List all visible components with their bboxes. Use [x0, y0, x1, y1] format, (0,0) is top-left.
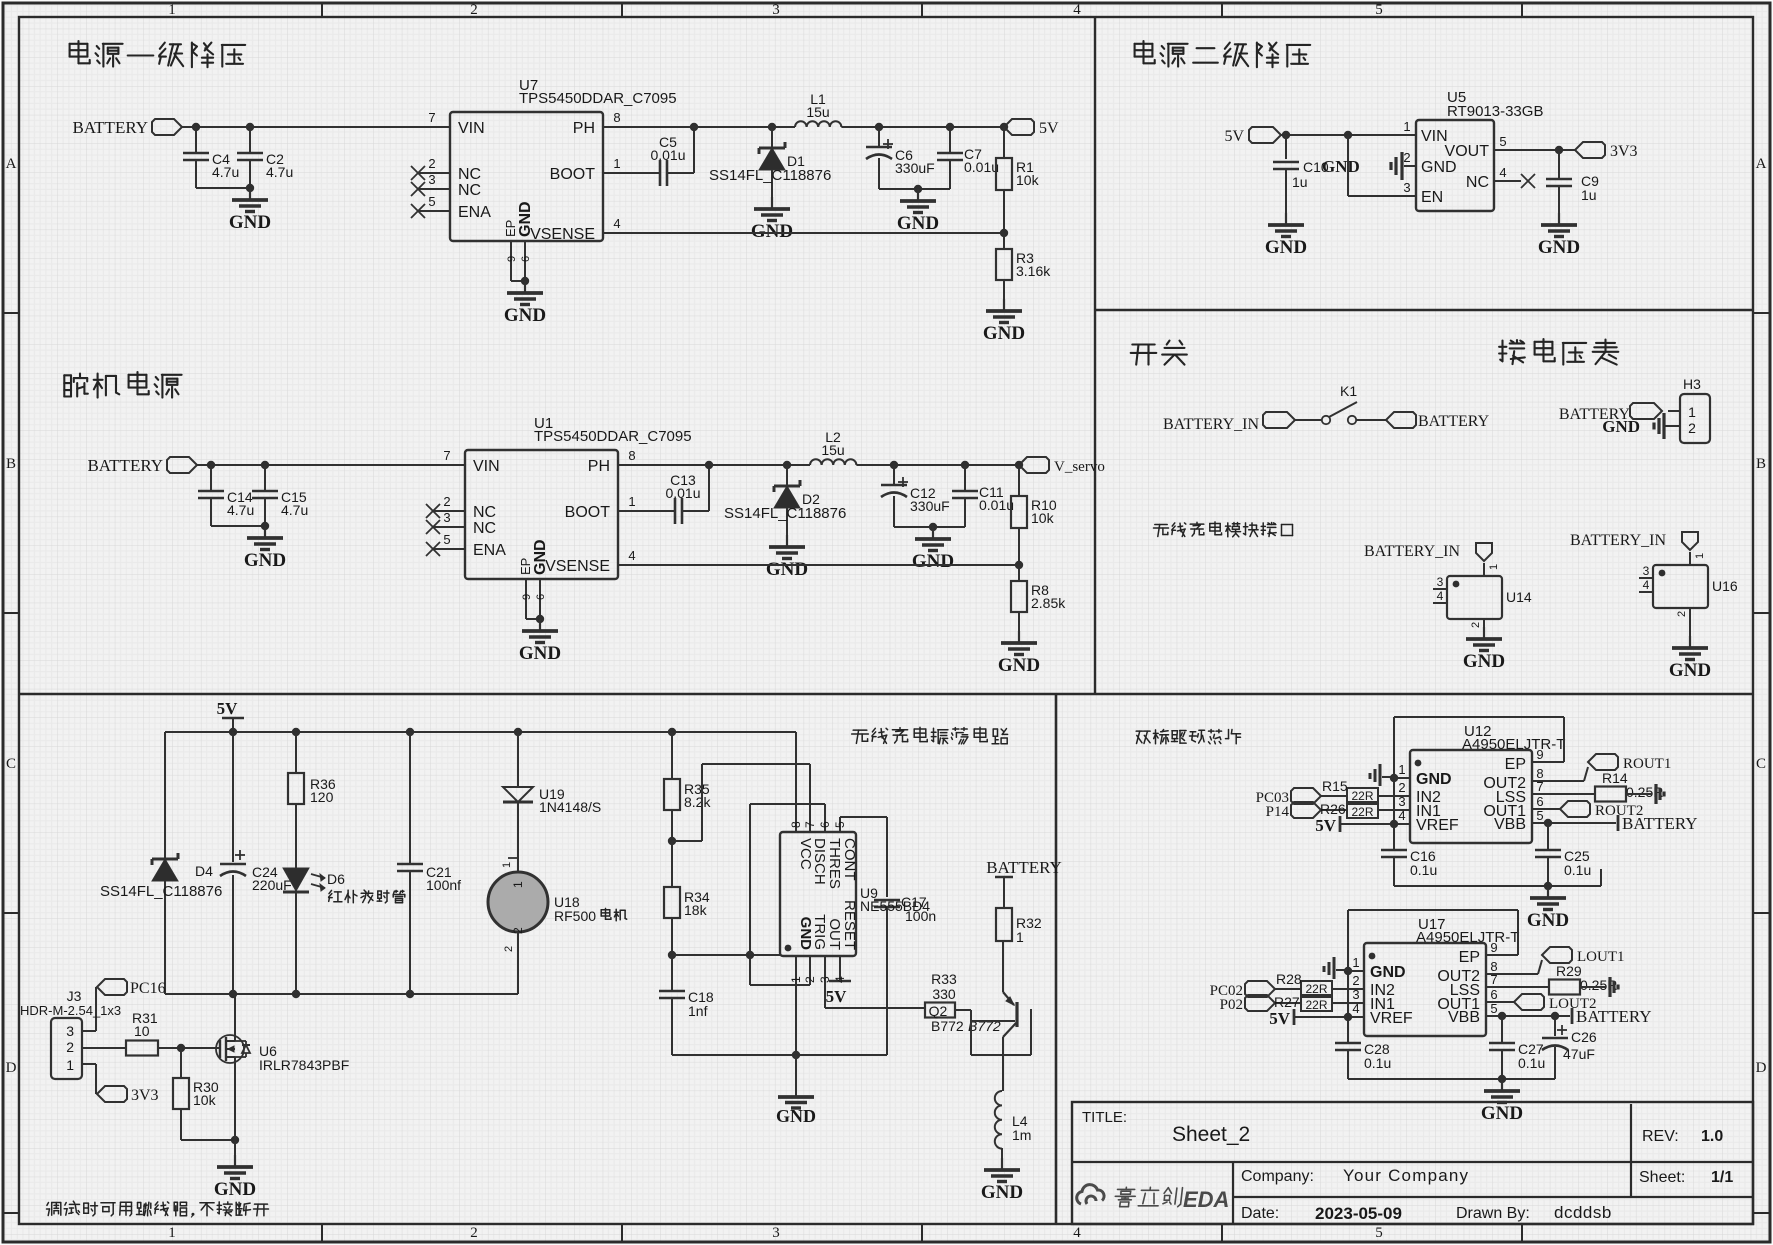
svg-text:BATTERY: BATTERY	[72, 118, 148, 137]
svg-text:4: 4	[613, 216, 620, 231]
svg-text:EP: EP	[518, 558, 533, 575]
svg-text:5: 5	[443, 532, 450, 547]
svg-text:GND: GND	[983, 323, 1025, 344]
svg-text:EP: EP	[1459, 949, 1480, 966]
svg-text:K1: K1	[1340, 383, 1357, 399]
svg-text:BOOT: BOOT	[550, 166, 596, 183]
svg-text:5: 5	[1375, 2, 1383, 18]
svg-text:GND: GND	[766, 559, 808, 580]
svg-text:3: 3	[66, 1023, 74, 1039]
svg-text:3: 3	[1643, 564, 1650, 578]
svg-text:ROUT1: ROUT1	[1623, 756, 1671, 772]
svg-text:1/1: 1/1	[1711, 1169, 1733, 1186]
svg-text:0.01u: 0.01u	[650, 147, 685, 163]
svg-text:5: 5	[428, 194, 435, 209]
svg-text:BATTERY: BATTERY	[1418, 413, 1490, 430]
svg-text:8: 8	[628, 448, 635, 463]
svg-text:A: A	[1756, 156, 1767, 172]
svg-text:9: 9	[506, 256, 518, 262]
svg-text:C: C	[6, 756, 16, 772]
svg-text:Sheet_2: Sheet_2	[1172, 1123, 1250, 1146]
svg-text:5V: 5V	[1315, 816, 1337, 835]
svg-text:1: 1	[1352, 955, 1359, 970]
svg-text:GND: GND	[1463, 651, 1505, 672]
svg-text:1: 1	[1403, 119, 1410, 134]
svg-text:0.1u: 0.1u	[1564, 862, 1591, 878]
svg-text:5V: 5V	[826, 987, 848, 1006]
svg-text:EP: EP	[1505, 756, 1526, 773]
svg-text:1: 1	[168, 2, 176, 18]
svg-text:1: 1	[789, 976, 803, 983]
svg-text:6: 6	[1536, 794, 1543, 809]
svg-text:BATTERY: BATTERY	[1622, 814, 1698, 833]
svg-text:BATTERY_IN: BATTERY_IN	[1163, 416, 1259, 433]
svg-text:Drawn By:: Drawn By:	[1456, 1205, 1530, 1222]
svg-text:0.01u: 0.01u	[979, 497, 1014, 513]
svg-text:VREF: VREF	[1416, 817, 1459, 834]
svg-text:0.25R: 0.25R	[1626, 784, 1663, 800]
svg-text:TPS5450DDAR_C7095: TPS5450DDAR_C7095	[534, 428, 692, 445]
svg-text:C: C	[1756, 756, 1766, 772]
svg-text:GND: GND	[1322, 157, 1360, 176]
svg-text:0.1u: 0.1u	[1518, 1055, 1545, 1071]
svg-text:R26: R26	[1320, 801, 1346, 817]
svg-text:8.2k: 8.2k	[684, 794, 711, 810]
svg-text:1: 1	[168, 1225, 176, 1241]
svg-text:100nf: 100nf	[426, 877, 461, 893]
svg-text:7: 7	[803, 821, 817, 828]
svg-text:DISCH: DISCH	[811, 838, 828, 885]
svg-text:4: 4	[1398, 808, 1405, 823]
svg-text:BOOT: BOOT	[565, 504, 611, 521]
svg-text:1u: 1u	[1581, 187, 1597, 203]
svg-text:15u: 15u	[821, 442, 844, 458]
svg-text:RT9013-33GB: RT9013-33GB	[1447, 103, 1543, 120]
svg-text:D: D	[1756, 1060, 1767, 1076]
svg-text:GND: GND	[1602, 417, 1640, 436]
svg-text:4: 4	[1073, 2, 1081, 18]
svg-text:3: 3	[443, 510, 450, 525]
svg-text:ENA: ENA	[458, 204, 491, 221]
svg-text:8: 8	[789, 821, 803, 828]
svg-text:VBB: VBB	[1494, 816, 1526, 833]
svg-text:3: 3	[1437, 575, 1444, 589]
svg-text:5: 5	[833, 821, 847, 828]
svg-text:R15: R15	[1322, 778, 1348, 794]
svg-text:D6: D6	[327, 871, 345, 887]
svg-text:2: 2	[1688, 420, 1696, 436]
svg-text:5: 5	[1536, 808, 1543, 823]
svg-text:GND: GND	[1370, 964, 1406, 981]
svg-text:Q2: Q2	[929, 1003, 948, 1019]
svg-text:4.7u: 4.7u	[227, 502, 254, 518]
svg-text:HDR-M-2.54_1x3: HDR-M-2.54_1x3	[20, 1003, 121, 1018]
svg-text:Date:: Date:	[1241, 1205, 1279, 1222]
svg-text:A: A	[6, 156, 17, 172]
svg-text:4: 4	[1437, 589, 1444, 603]
svg-text:2: 2	[1403, 150, 1410, 165]
svg-text:GND: GND	[519, 643, 561, 664]
svg-text:1: 1	[1694, 553, 1706, 559]
svg-text:4.7u: 4.7u	[266, 164, 293, 180]
svg-text:3: 3	[818, 976, 832, 983]
svg-text:RF500: RF500	[554, 908, 596, 924]
svg-text:330: 330	[932, 986, 956, 1002]
svg-text:5V: 5V	[217, 699, 239, 718]
svg-text:3: 3	[1352, 987, 1359, 1002]
svg-text:2023-05-09: 2023-05-09	[1315, 1204, 1402, 1223]
svg-text:VREF: VREF	[1370, 1010, 1413, 1027]
svg-text:GND: GND	[214, 1179, 256, 1200]
svg-text:15u: 15u	[806, 104, 829, 120]
svg-text:18k: 18k	[684, 902, 708, 918]
svg-text:NC: NC	[458, 182, 481, 199]
svg-text:1: 1	[1688, 404, 1696, 420]
svg-text:5V: 5V	[1224, 128, 1244, 145]
svg-text:GND: GND	[1527, 910, 1569, 931]
svg-text:THRES: THRES	[826, 838, 843, 889]
svg-text:C26: C26	[1571, 1029, 1597, 1045]
svg-text:2: 2	[443, 494, 450, 509]
svg-text:2: 2	[428, 156, 435, 171]
svg-text:330uF: 330uF	[895, 160, 935, 176]
svg-text:BATTERY_IN: BATTERY_IN	[1364, 543, 1460, 560]
svg-text:0.01u: 0.01u	[964, 159, 999, 175]
svg-text:SS14FL_C118876: SS14FL_C118876	[724, 505, 846, 522]
svg-text:A4950ELJTR-T: A4950ELJTR-T	[1416, 929, 1519, 946]
svg-text:BATTERY: BATTERY	[986, 858, 1062, 877]
svg-text:LOUT1: LOUT1	[1577, 949, 1625, 965]
svg-text:R29: R29	[1556, 963, 1582, 979]
svg-text:GND: GND	[504, 305, 546, 326]
svg-text:7: 7	[443, 448, 450, 463]
svg-text:J3: J3	[67, 988, 82, 1004]
svg-text:GND: GND	[897, 213, 939, 234]
svg-text:4: 4	[1643, 578, 1650, 592]
svg-text:GND: GND	[229, 212, 271, 233]
svg-text:6: 6	[535, 594, 547, 600]
svg-text:PH: PH	[573, 120, 595, 137]
svg-text:Company:: Company:	[1241, 1168, 1314, 1185]
svg-text:7: 7	[1490, 972, 1497, 987]
svg-text:22R: 22R	[1351, 789, 1373, 803]
svg-text:47uF: 47uF	[1563, 1046, 1595, 1062]
svg-text:EN: EN	[1421, 189, 1443, 206]
svg-text:A4950ELJTR-T: A4950ELJTR-T	[1462, 736, 1565, 753]
svg-text:9: 9	[1490, 940, 1497, 955]
svg-text:22R: 22R	[1351, 805, 1373, 819]
svg-text:R27: R27	[1274, 994, 1300, 1010]
svg-text:100n: 100n	[905, 908, 936, 924]
svg-text:1N4148/S: 1N4148/S	[539, 799, 601, 815]
svg-text:NC: NC	[458, 166, 481, 183]
svg-text:0.1u: 0.1u	[1410, 862, 1437, 878]
svg-text:1m: 1m	[1012, 1127, 1031, 1143]
svg-text:BATTERY: BATTERY	[87, 456, 163, 475]
svg-text:2: 2	[1352, 973, 1359, 988]
svg-text:VIN: VIN	[458, 120, 485, 137]
svg-text:2: 2	[470, 2, 478, 18]
svg-text:4.7u: 4.7u	[281, 502, 308, 518]
svg-text:GND: GND	[1416, 771, 1452, 788]
svg-text:U14: U14	[1506, 589, 1532, 605]
svg-text:SS14FL_C118876: SS14FL_C118876	[100, 883, 222, 900]
svg-text:CONT: CONT	[841, 838, 858, 881]
svg-text:3: 3	[1398, 794, 1405, 809]
svg-text:3: 3	[772, 2, 780, 18]
svg-text:1: 1	[613, 156, 620, 171]
svg-text:5: 5	[1490, 1001, 1497, 1016]
svg-text:Sheet:: Sheet:	[1639, 1169, 1685, 1186]
svg-text:R14: R14	[1602, 770, 1628, 786]
svg-text:NC: NC	[1466, 174, 1489, 191]
svg-text:GND: GND	[244, 550, 286, 571]
svg-text:R33: R33	[931, 971, 957, 987]
svg-text:IRLR7843PBF: IRLR7843PBF	[259, 1057, 349, 1073]
svg-text:9: 9	[521, 594, 533, 600]
svg-text:2: 2	[503, 946, 515, 952]
svg-text:1: 1	[501, 862, 513, 868]
svg-text:U16: U16	[1712, 578, 1738, 594]
svg-text:1: 1	[1398, 762, 1405, 777]
svg-text:8: 8	[613, 110, 620, 125]
svg-text:P02: P02	[1220, 997, 1243, 1013]
svg-text:0.25R: 0.25R	[1580, 977, 1617, 993]
svg-text:22R: 22R	[1305, 998, 1327, 1012]
svg-text:B: B	[1756, 456, 1766, 472]
svg-text:1.0: 1.0	[1701, 1128, 1723, 1145]
svg-text:22R: 22R	[1305, 982, 1327, 996]
svg-text:6: 6	[818, 821, 832, 828]
svg-text:GND: GND	[1669, 660, 1711, 681]
svg-text:ENA: ENA	[473, 542, 506, 559]
svg-text:0.1u: 0.1u	[1364, 1055, 1391, 1071]
svg-text:D: D	[6, 1060, 17, 1076]
svg-text:VOUT: VOUT	[1445, 143, 1490, 160]
svg-text:VSENSE: VSENSE	[545, 558, 610, 575]
svg-text:3V3: 3V3	[131, 1087, 159, 1104]
svg-text:EP: EP	[503, 220, 518, 237]
svg-text:GND: GND	[517, 201, 534, 237]
svg-text:GND: GND	[1481, 1103, 1523, 1124]
svg-text:OUT: OUT	[826, 918, 843, 950]
svg-text:BATTERY_IN: BATTERY_IN	[1570, 532, 1666, 549]
svg-text:BATTERY: BATTERY	[1576, 1007, 1652, 1026]
svg-text:5: 5	[1375, 1225, 1383, 1241]
svg-text:4: 4	[1499, 165, 1506, 180]
svg-text:2: 2	[470, 1225, 478, 1241]
svg-text:5: 5	[1499, 134, 1506, 149]
svg-text:3: 3	[428, 172, 435, 187]
svg-text:1nf: 1nf	[688, 1003, 708, 1019]
svg-text:GND: GND	[912, 551, 954, 572]
svg-text:H3: H3	[1683, 376, 1701, 392]
svg-text:330uF: 330uF	[910, 498, 950, 514]
svg-text:1: 1	[66, 1057, 74, 1073]
svg-text:2: 2	[1676, 611, 1688, 617]
svg-text:6: 6	[520, 256, 532, 262]
svg-text:NC: NC	[473, 520, 496, 537]
svg-text:0.01u: 0.01u	[665, 485, 700, 501]
svg-text:EDA: EDA	[1183, 1187, 1229, 1212]
svg-text:D4: D4	[195, 863, 213, 879]
svg-text:GND: GND	[751, 221, 793, 242]
svg-text:B: B	[6, 456, 16, 472]
svg-text:P14: P14	[1266, 804, 1290, 820]
svg-text:GND: GND	[998, 655, 1040, 676]
svg-text:NC: NC	[473, 504, 496, 521]
svg-text:3: 3	[772, 1225, 780, 1241]
svg-text:4: 4	[833, 976, 847, 983]
svg-text:1: 1	[1016, 929, 1024, 945]
svg-text:7: 7	[428, 110, 435, 125]
svg-text:GND: GND	[981, 1182, 1023, 1203]
svg-text:GND: GND	[1538, 237, 1580, 258]
svg-text:2: 2	[1470, 622, 1482, 628]
svg-text:2: 2	[1398, 780, 1405, 795]
svg-text:10k: 10k	[1031, 510, 1055, 526]
svg-text:2.85k: 2.85k	[1031, 595, 1066, 611]
svg-text:4: 4	[1352, 1001, 1359, 1016]
svg-text:10k: 10k	[193, 1092, 217, 1108]
svg-text:1u: 1u	[1292, 174, 1308, 190]
svg-text:PH: PH	[588, 458, 610, 475]
svg-text:GND: GND	[1265, 237, 1307, 258]
svg-text:4: 4	[628, 548, 635, 563]
svg-text:5V: 5V	[1269, 1009, 1291, 1028]
svg-text:4: 4	[1073, 1225, 1081, 1241]
svg-text:2: 2	[803, 976, 817, 983]
svg-text:REV:: REV:	[1642, 1128, 1679, 1145]
svg-text:dcddsb: dcddsb	[1554, 1203, 1612, 1222]
svg-text:R28: R28	[1276, 971, 1302, 987]
svg-text:3: 3	[1403, 180, 1410, 195]
svg-text:VSENSE: VSENSE	[530, 226, 595, 243]
svg-text:5V: 5V	[1039, 120, 1059, 137]
svg-text:GND: GND	[776, 1106, 816, 1126]
svg-text:TITLE:: TITLE:	[1082, 1109, 1127, 1126]
svg-text:10k: 10k	[1016, 172, 1040, 188]
svg-text:7: 7	[1536, 779, 1543, 794]
svg-text:TRIG: TRIG	[811, 914, 828, 950]
svg-text:Your Company: Your Company	[1343, 1166, 1469, 1185]
svg-text:3V3: 3V3	[1610, 143, 1638, 160]
svg-text:6: 6	[1490, 987, 1497, 1002]
svg-text:V_servo: V_servo	[1054, 459, 1105, 475]
svg-text:2: 2	[66, 1039, 74, 1055]
svg-text:3.16k: 3.16k	[1016, 263, 1051, 279]
svg-text:GND: GND	[1421, 159, 1457, 176]
svg-text:SS14FL_C118876: SS14FL_C118876	[709, 167, 831, 184]
svg-text:120: 120	[310, 789, 334, 805]
svg-text:9: 9	[1536, 747, 1543, 762]
svg-text:GND: GND	[532, 539, 549, 575]
svg-text:RESET: RESET	[841, 900, 858, 950]
svg-text:VBB: VBB	[1448, 1009, 1480, 1026]
svg-text:VIN: VIN	[473, 458, 500, 475]
svg-text:10: 10	[134, 1023, 150, 1039]
svg-text:1: 1	[511, 881, 525, 888]
svg-text:B772: B772	[931, 1018, 964, 1034]
svg-text:4.7u: 4.7u	[212, 164, 239, 180]
svg-text:1: 1	[628, 494, 635, 509]
svg-text:1: 1	[1488, 564, 1500, 570]
svg-text:TPS5450DDAR_C7095: TPS5450DDAR_C7095	[519, 90, 677, 107]
svg-text:PC16: PC16	[130, 980, 166, 997]
